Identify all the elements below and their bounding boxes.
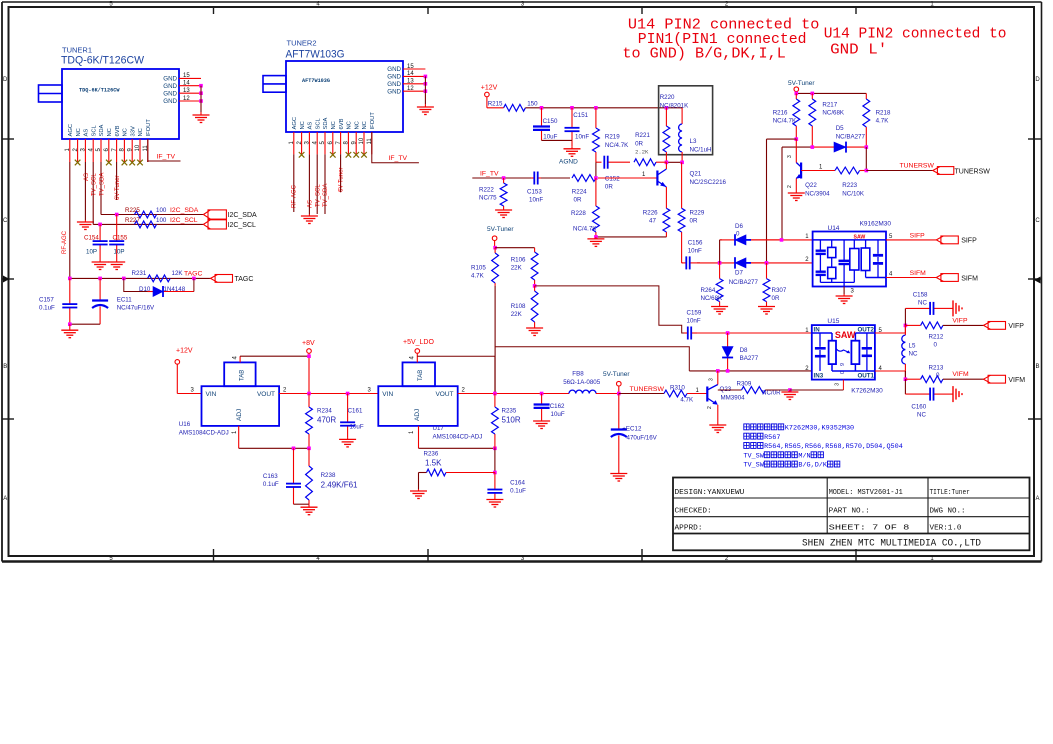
title block field DWG NO [930,507,966,515]
svg-text:NC: NC [123,128,129,136]
wire U15 pin3 to R309 node [842,380,844,390]
value 100 (R227) [156,217,167,224]
wire TUNER1 pin1 AGC down [69,162,71,278]
wire TUNER2 pin4 down [316,154,318,214]
value 470R (R234) [317,416,336,425]
svg-text:15: 15 [183,73,190,79]
wire long vertical to D7 line [766,139,768,263]
net label TAGC red [184,271,202,278]
value 0R 2.2K (R221) [635,141,649,156]
svg-text:C162: C162 [550,403,565,410]
resistor R229 [678,162,705,263]
wire D5 line to left [782,145,868,149]
svg-text:TV_SCL: TV_SCL [92,173,98,196]
svg-text:470R: 470R [317,416,336,425]
svg-text:AFT7W103G: AFT7W103G [286,49,345,61]
svg-text:SIFP: SIFP [910,232,926,239]
tuner module TUNER1 TDQ-6K/T126CW [39,46,180,140]
svg-text:VIFP: VIFP [1008,323,1024,330]
svg-text:C163: C163 [263,473,278,480]
wire ADJ node down to R236 [493,448,497,474]
resistor R222 [479,178,507,208]
svg-text:C154: C154 [84,235,99,242]
svg-text:0: 0 [736,231,740,238]
net label TUNERSW red (rail) [630,386,665,393]
value 4.7K (R218) [876,118,890,125]
svg-text:TITLE:Tuner: TITLE:Tuner [930,489,970,497]
capacitor C158 [905,292,947,326]
wire TUNER2 pin7 down [340,154,342,192]
svg-text:U15: U15 [827,318,839,325]
red note text 1 [622,18,819,63]
svg-text:2.49K/F61: 2.49K/F61 [321,481,358,490]
wire U14 pin2 line (D7) [697,262,700,264]
wire IF_TV line [472,177,657,179]
inductor FB8 56ohm-1A-0805 [563,371,619,394]
svg-text:GND: GND [163,98,177,105]
TUNER2 GND pins 15-12 [387,64,427,104]
svg-text:R229: R229 [690,210,705,217]
svg-text:13: 13 [183,88,190,94]
resistor R227 [125,217,157,228]
svg-text:C150: C150 [543,118,558,125]
value 0 (R213) [936,372,940,379]
black box around R220/L3 [659,86,713,155]
svg-text:L3: L3 [690,138,697,145]
svg-text:TAGC: TAGC [235,276,254,283]
value NC/4.7K (R228) [573,226,597,233]
svg-text:TDQ-6K/T126CW: TDQ-6K/T126CW [61,55,145,67]
wire U15 pin4 to VIFM node [875,371,907,381]
svg-text:47: 47 [649,218,656,225]
svg-text:VIFM: VIFM [952,371,969,378]
svg-text:SHEET: 7 OF 8: SHEET: 7 OF 8 [829,524,910,532]
wire C150 to C151 ground [542,139,573,141]
svg-text:10uF: 10uF [543,134,557,141]
svg-text:IF_TV: IF_TV [480,171,499,178]
svg-text:6VB: 6VB [339,118,345,129]
svg-text:ADJ: ADJ [414,409,421,421]
svg-text:RF-AGC: RF-AGC [62,230,68,254]
svg-text:AGC: AGC [292,117,298,130]
capacitor C164 [487,473,526,498]
ground under U14 pin3 [836,294,853,304]
ground under R236 [410,489,427,499]
IC U14 K9162M30 SAW filter [805,221,893,295]
svg-text:NC: NC [917,412,926,419]
wire TAGC line [70,277,211,279]
svg-text:TUNERSW: TUNERSW [630,386,665,393]
capacitor C153 [527,172,543,204]
value 12K (R231) [172,270,184,277]
svg-text:NC/4.7K: NC/4.7K [573,226,597,233]
svg-text:R567: R567 [764,434,780,442]
resistor R310 [664,385,707,397]
net label IF_TV (TUNER2) [389,155,408,162]
ground under R108 [526,326,543,336]
svg-text:6V-Tuner: 6V-Tuner [339,168,345,192]
rotated ground at C160 [947,386,962,402]
svg-text:NC: NC [909,351,918,358]
svg-text:FB8: FB8 [572,371,584,378]
svg-text:IF_TV: IF_TV [389,155,408,162]
svg-text:IFOUT: IFOUT [146,119,152,137]
ground AGND [559,147,581,166]
title block field VER [930,524,962,532]
svg-text:I2C_SDA: I2C_SDA [170,207,199,214]
svg-text:D7: D7 [735,270,743,277]
svg-text:R222: R222 [479,187,494,194]
resistor R220 [660,94,675,162]
port tag SIFM [936,274,978,283]
value NC/68K (R217) [822,110,845,117]
value 0R (R229) [690,218,698,225]
wire TUNER2 pin5 down [324,154,326,214]
svg-text:SAW: SAW [835,330,856,340]
power 5V-Tuner (left) [487,226,514,248]
svg-text:NC/47uF/16V: NC/47uF/16V [117,305,155,312]
svg-text:APPRD:: APPRD: [675,524,703,532]
svg-text:R264: R264 [701,287,716,294]
resistor R219 [593,108,621,162]
svg-text:C158: C158 [913,292,928,299]
junction R106/R108 [533,284,537,288]
svg-text:1N4148: 1N4148 [164,286,186,293]
ground under Q22 [788,191,805,201]
wire I2C_SDA line [101,214,203,216]
capacitor C162 [534,394,565,420]
svg-text:R236: R236 [424,451,439,458]
svg-text:NC: NC [362,121,368,129]
svg-text:NC: NC [918,300,927,307]
svg-text:IF_TV: IF_TV [157,154,176,161]
svg-text:R307: R307 [772,287,787,294]
svg-text:A: A [1035,496,1039,502]
svg-text:6VB: 6VB [115,125,121,136]
svg-text:B/G,D/K: B/G,D/K [798,462,827,470]
svg-text:D6: D6 [735,223,743,230]
resistor R106 [511,248,538,286]
svg-text:GND: GND [163,76,177,83]
IC U16 AMS1084CD-ADJ [179,362,287,436]
IC U17 AMS1084CD-ADJ [368,362,483,440]
title block field DESIGN [675,489,745,497]
net label IF_TV (TUNER1) [157,154,176,161]
net label SIFM red [910,270,927,277]
ground under C154 [92,260,109,270]
svg-text:GND: GND [387,66,401,73]
svg-text:GND: GND [163,90,177,97]
svg-text:I2C_SCL: I2C_SCL [228,222,257,229]
TUNER2 bottom pin stubs [294,132,372,154]
diode D10 1N4148 [124,278,194,297]
value 1.5K (R236) [425,459,442,468]
wire U15 pin2 line [689,369,812,373]
svg-text:0.1uF: 0.1uF [39,305,55,312]
svg-text:TV_SDA: TV_SDA [323,184,329,207]
svg-text:R309: R309 [737,381,752,388]
wire +12V bus [487,107,683,109]
svg-text:56Ω-1A-0805: 56Ω-1A-0805 [563,379,601,386]
TUNER1 pin numbers 1-11 [65,144,149,151]
svg-text:AFT7W103G: AFT7W103G [302,78,330,84]
net label SIFP red [910,232,926,239]
svg-text:VIN: VIN [206,391,217,398]
capacitor C155 [109,215,128,261]
title block field SHEET [829,524,910,532]
svg-text:NC/BA277: NC/BA277 [836,134,866,141]
value NC/4.7K (R216) [773,118,797,125]
svg-text:C: C [3,218,8,224]
resistor R238 [306,448,336,504]
svg-text:NC: NC [107,128,113,136]
svg-text:2.2K: 2.2K [635,149,649,156]
resistor R218 [863,93,891,147]
power +8V [302,340,315,394]
diode D5 NC/BA277 [812,125,866,153]
power +5V_LDO [403,339,434,362]
svg-text:AS: AS [308,122,314,130]
ground under TUNER2 pins 3-4 [301,214,318,224]
svg-text:R106: R106 [511,257,526,264]
port tag VIFM [984,375,1026,384]
svg-text:NC: NC [331,121,337,129]
svg-text:R227: R227 [125,217,140,224]
title block field PART NO [829,507,870,515]
svg-text:+5V_LDO: +5V_LDO [403,339,434,346]
wire to VIFP tag [943,324,984,326]
title block field TITLE [930,489,970,497]
svg-text:150: 150 [527,101,538,108]
svg-text:NC/10K: NC/10K [842,191,865,198]
svg-text:R220: R220 [660,94,675,101]
net label AS (TUNER2 pin3) [308,200,314,208]
svg-text:NC/4.7K: NC/4.7K [773,118,797,125]
wire D7 to U14 pin2 [718,261,813,265]
svg-text:TV_SDA: TV_SDA [99,173,105,196]
svg-text:NC/BA277: NC/BA277 [729,279,759,286]
svg-text:CHECKED:: CHECKED: [675,507,712,515]
svg-text:U16: U16 [179,421,191,428]
power +12V (regulator input) [175,348,202,394]
svg-text:AS: AS [84,173,90,181]
net label 6V-Tuner (TUNER1 pin7) [115,176,121,200]
net label TV_SDA (TUNER1 pin5) [99,173,105,196]
svg-text:5V-Tuner: 5V-Tuner [603,371,630,378]
resistor R225 [125,207,157,218]
svg-text:U17: U17 [433,425,445,432]
resistor R234 [306,394,333,449]
svg-text:C152: C152 [605,176,620,183]
wire U14 pin4 SIFM out [886,277,936,279]
svg-text:TAB: TAB [240,370,246,381]
wire TUNER1 pin4 to I2C_SCL [92,162,94,224]
svg-text:TV_SW: TV_SW [743,452,764,460]
svg-text:BA277: BA277 [740,355,759,362]
wire C159 to U15 pin1 [697,331,812,335]
TUNER1 GND pins 15-12 [163,73,203,112]
net label RF-AGC (TUNER2 pin1) [292,184,298,208]
svg-text:to GND) B/G,DK,I,L: to GND) B/G,DK,I,L [622,47,785,63]
wire TUNER2 pin1 down [293,154,295,212]
value NC/10K (R223) [842,191,865,198]
svg-text:B: B [3,364,7,370]
port tag SIFP [936,236,977,245]
wire TUNER2 pin11 IFOUT to IF_TV [372,132,419,163]
wire 5V-Tuner bus [795,92,867,96]
svg-text:R108: R108 [511,303,526,310]
svg-text:SIFM: SIFM [961,275,978,282]
ground under EC12 [610,472,627,482]
net label I2C_SCL red [170,217,198,224]
value 4.7K (R310) [680,397,694,404]
ground under R307 [758,304,775,315]
value 22K (R108) [511,311,523,318]
svg-text:5V-Tuner: 5V-Tuner [487,226,514,233]
svg-text:33V: 33V [130,126,136,136]
value 510R (R235) [502,416,521,425]
svg-text:NC/8201K: NC/8201K [660,103,689,110]
svg-text:TUNER1: TUNER1 [62,46,92,55]
svg-text:R231: R231 [132,270,147,277]
net label IF_TV (filter input) [480,171,499,178]
svg-text:10uF: 10uF [551,411,565,418]
svg-text:3: 3 [787,155,793,158]
svg-text:100: 100 [156,207,167,214]
junction R224/R228 [594,176,598,180]
value 22K (R106) [511,265,523,272]
svg-text:R226: R226 [643,210,658,217]
wire U14 pin5 SIFP out [886,239,936,241]
wire R309 to ground node [765,388,843,392]
ground under R309 [781,390,798,400]
wire U17 ADJ node [419,426,497,450]
svg-text:PART NO.:: PART NO.: [829,507,870,515]
svg-text:C155: C155 [113,235,128,242]
svg-text:0.1uF: 0.1uF [263,481,279,488]
svg-text:R224: R224 [572,189,587,196]
tuner module TUNER2 AFT7W103G [263,39,403,133]
svg-text:C157: C157 [39,297,54,304]
svg-text:VIN: VIN [382,391,393,398]
svg-text:AS: AS [84,129,90,137]
junction node C155/I2C_SDA [115,213,119,217]
wire TUNER1 pin7 6V-Tuner [116,162,118,200]
svg-text:NC/75: NC/75 [479,195,497,202]
svg-text:C151: C151 [573,112,588,119]
junction nodes on TAGC line [68,277,196,281]
wire R218/D5 to TUNERSW node [865,147,869,172]
wire long vertical to D6 line [781,147,783,240]
net label TV_SDA (TUNER2 pin5) [323,184,329,207]
svg-text:L5: L5 [909,343,916,350]
wire U15 pin5 to VIFP node [875,324,907,333]
svg-text:6V-Tuner: 6V-Tuner [115,176,121,200]
port tag TAGC [211,275,254,284]
svg-text:0R: 0R [635,141,643,148]
svg-text:0R: 0R [605,184,613,191]
value NC/4.7K (R219) [605,142,629,149]
svg-text:+EC12: +EC12 [622,426,642,433]
capacitor C152 [596,156,630,191]
svg-text:R238: R238 [321,472,336,479]
svg-text:IN3: IN3 [814,373,824,380]
svg-text:K7262M30,K9352M30: K7262M30,K9352M30 [785,425,854,433]
wire R226/R228 ground bus [594,235,666,239]
svg-text:AGND: AGND [559,159,578,166]
svg-text:K7262M30: K7262M30 [851,388,883,395]
port tag I2C_SDA [203,210,257,219]
svg-text:TUNER2: TUNER2 [287,39,317,48]
svg-text:SDA: SDA [99,124,105,136]
svg-text:12K: 12K [172,270,184,277]
ground under C157 [61,324,78,338]
ground at TUNER1 GND pins [193,112,210,123]
port tag I2C_SCL [203,220,256,229]
svg-text:R234: R234 [317,408,332,415]
svg-text:22K: 22K [511,265,523,272]
wire U14 pin1 line (D6) [720,239,722,241]
capacitor C154 [84,224,108,260]
svg-text:13: 13 [407,79,414,85]
svg-text:ADJ: ADJ [236,409,243,421]
resistor R307 [763,263,787,304]
svg-text:NC/68K: NC/68K [822,110,845,117]
svg-text:NC/4.7K: NC/4.7K [605,142,629,149]
wire TUNER1 pin11 IFOUT to IF_TV [148,139,181,162]
no-connect X marks TUNER1 pins 2,6,8,9,10 [75,160,143,166]
svg-text:R213: R213 [929,365,944,372]
svg-text:D8: D8 [740,347,748,354]
power +12V (top) [481,85,498,108]
svg-text:0.1uF: 0.1uF [510,488,526,495]
svg-text:3: 3 [835,383,841,386]
value 4.7K (R105) [471,273,485,280]
value 0R (R224) [574,197,582,204]
svg-text:K9162M30: K9162M30 [860,221,892,228]
svg-text:U14 PIN2 connected to: U14 PIN2 connected to [824,27,1007,43]
svg-text:470uF/16V: 470uF/16V [627,435,658,442]
svg-text:GND: GND [387,74,401,81]
svg-text:U14: U14 [828,225,840,232]
svg-text:SIFM: SIFM [910,270,927,277]
svg-text:R223: R223 [842,182,857,189]
svg-text:10P: 10P [114,249,125,256]
svg-text:100: 100 [156,217,167,224]
resistor R216 [773,93,800,139]
title block table [673,478,1030,551]
svg-text:TAGC: TAGC [184,271,202,278]
ground under C164 [486,498,503,508]
wire R105 bottom to +5 rail [494,286,496,394]
capacitor C163 [263,448,301,504]
inductor L3 [679,108,712,163]
svg-text:14: 14 [183,81,190,87]
wire I2C_SCL line [93,223,203,225]
capacitor EC12 (electrolytic) [611,394,658,472]
svg-text:C153: C153 [527,189,542,196]
svg-text:SCL: SCL [315,117,321,129]
resistor R235 [492,394,517,449]
svg-text:2: 2 [787,185,793,188]
svg-text:NC/2SC2216: NC/2SC2216 [690,179,727,186]
svg-text:+12V: +12V [481,85,498,92]
no-connect X marks TUNER2 pins 2,6,8,9,10 [299,152,367,158]
svg-text:10P: 10P [86,249,97,256]
ground under C161 [339,437,356,447]
svg-text:AS: AS [308,200,314,208]
svg-text:NC: NC [347,121,353,129]
